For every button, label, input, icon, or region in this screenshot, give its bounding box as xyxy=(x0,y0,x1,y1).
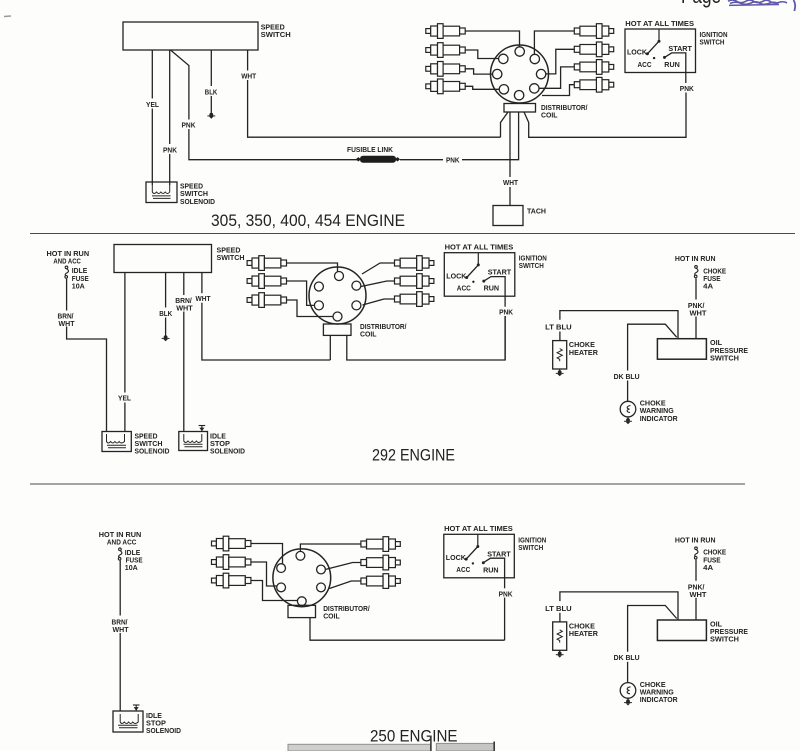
plug wire R1 s3 xyxy=(300,544,361,551)
spark plug 1 right xyxy=(574,24,613,39)
svg-text:SOLENOID: SOLENOID xyxy=(135,447,170,456)
svg-text:AND ACC: AND ACC xyxy=(107,538,137,547)
svg-text:SOLENOID: SOLENOID xyxy=(210,447,245,456)
plug wire R2 s2 xyxy=(361,281,395,287)
spark plug 2 left s2 xyxy=(247,274,286,289)
ground BLK s2 xyxy=(162,334,170,341)
spark plug 1 right s2 xyxy=(395,256,434,271)
svg-text:WHT: WHT xyxy=(503,178,518,187)
coil tach leg xyxy=(509,112,511,177)
svg-text:SWITCH: SWITCH xyxy=(261,30,291,39)
solenoid internals s2 xyxy=(107,434,127,448)
svg-text:Page: Page xyxy=(681,0,721,8)
V8 distributor/coil xyxy=(491,45,687,206)
label BRN/WHT left xyxy=(57,311,77,327)
svg-text:COIL: COIL xyxy=(323,611,340,620)
svg-text:SOLENOID: SOLENOID xyxy=(146,726,181,735)
6-cyl distributor/coil s3 xyxy=(273,549,505,640)
label BLK xyxy=(203,86,219,96)
idle fuse F1 xyxy=(65,266,69,278)
svg-text:YEL: YEL xyxy=(118,394,131,403)
speed switch solenoid box xyxy=(146,182,177,203)
terminal W xyxy=(493,69,502,78)
svg-text:WHT: WHT xyxy=(59,319,75,328)
label PNK mid xyxy=(180,120,197,130)
terminal SW xyxy=(499,85,508,94)
idle fuse F3 xyxy=(118,548,122,560)
svg-text:SWITCH: SWITCH xyxy=(217,253,245,262)
terminal LL xyxy=(277,583,286,592)
svg-text:YEL: YEL xyxy=(146,100,159,109)
label DK BLU xyxy=(612,371,642,381)
terminal LR xyxy=(352,301,361,310)
speed switch solenoid box s2 xyxy=(102,432,131,452)
terminal bottom xyxy=(297,597,306,606)
speed switch S2 box xyxy=(114,245,212,273)
speed switch S1 box xyxy=(123,22,258,50)
plug wire L3 s2 xyxy=(287,300,334,317)
ground BLK xyxy=(207,112,215,119)
spark plug 1 right s3 xyxy=(361,537,400,552)
blue pen scribble xyxy=(728,0,795,11)
plug wire R1 xyxy=(534,31,574,54)
coil leg to ignition PNK xyxy=(310,618,505,641)
label WHT tach xyxy=(501,178,519,187)
svg-text:4A: 4A xyxy=(703,282,714,291)
oil pressure switch box xyxy=(657,339,706,360)
distributor cap circle xyxy=(273,549,331,607)
terminal NE xyxy=(530,54,539,63)
wire BRN/WHT to idle stop solenoid xyxy=(183,273,185,432)
plug wire L3 s3 xyxy=(251,581,298,601)
wire PNK/WHT fuse to oil pressure switch xyxy=(695,278,697,299)
right choke assembly s2 xyxy=(544,254,749,424)
coil right leg to ignition PNK xyxy=(524,93,686,138)
coil right leg to ignition xyxy=(347,316,505,360)
svg-text:WHT: WHT xyxy=(241,71,256,80)
separator line 2 xyxy=(30,483,745,485)
svg-text:PNK: PNK xyxy=(163,145,177,154)
wire BLK speed switch to ground xyxy=(210,50,212,112)
coil left leg to WHT wire xyxy=(501,112,509,137)
6-cyl distributor/coil s2 xyxy=(309,267,505,360)
label BRN/WHT s3 xyxy=(111,617,131,633)
wire WHT speed switch to coil xyxy=(202,273,330,361)
svg-text:292 ENGINE: 292 ENGINE xyxy=(372,446,455,465)
plug wire R4 xyxy=(542,85,574,96)
svg-text:WHT: WHT xyxy=(690,309,707,318)
plug wire L1 xyxy=(465,31,519,47)
small gray smudge xyxy=(4,15,11,18)
terminal LL xyxy=(314,301,323,310)
bottom scan artifact bars xyxy=(288,736,494,751)
terminal NW xyxy=(499,54,508,63)
terminal top xyxy=(335,272,344,281)
wire DK BLU to indicator xyxy=(628,324,677,370)
svg-text:BLK: BLK xyxy=(159,309,172,318)
wire PNK ignition s3 to coil xyxy=(504,598,506,641)
wire BRN/WHT fuse to idle stop solenoid xyxy=(119,561,121,616)
terminal bottom xyxy=(333,312,342,321)
distributor cap circle xyxy=(309,267,366,324)
svg-text:HOT IN RUN: HOT IN RUN xyxy=(675,254,716,263)
choke fuse F2 xyxy=(694,266,698,278)
spark plug 3 right s3 xyxy=(361,574,400,589)
svg-text:305, 350, 400, 454 ENGINE: 305, 350, 400, 454 ENGINE xyxy=(211,211,405,230)
spark plug 3 right s2 xyxy=(395,292,434,307)
svg-text:250 ENGINE: 250 ENGINE xyxy=(370,727,458,746)
choke heater xyxy=(553,341,567,369)
spark plug 4 left xyxy=(426,79,465,94)
label LT BLU xyxy=(544,322,573,332)
spark plug 2 left xyxy=(426,43,465,58)
plug wire L2 s2 xyxy=(287,281,315,305)
plug wire R3 s2 xyxy=(363,299,395,305)
plug wire R3 xyxy=(540,67,575,88)
svg-text:SOLENOID: SOLENOID xyxy=(180,197,215,206)
svg-text:FUSIBLE LINK: FUSIBLE LINK xyxy=(347,145,393,154)
spark plug 4 right xyxy=(574,77,613,92)
terminal S xyxy=(514,91,523,100)
spark plug 3 left s3 xyxy=(212,573,251,588)
svg-text:DK BLU: DK BLU xyxy=(614,372,640,381)
plug wire L1 s2 xyxy=(287,263,338,272)
separator line 1 xyxy=(30,233,795,235)
plug wire L4 xyxy=(465,86,499,89)
label YEL xyxy=(145,99,161,109)
fusible link xyxy=(356,156,400,163)
plug wire R2 xyxy=(546,49,575,74)
spark plug 1 left xyxy=(426,24,465,39)
plug wire R2 s3 xyxy=(325,563,361,570)
wire PNK fusible link to coil xyxy=(400,159,443,161)
spark plug 2 right xyxy=(574,42,613,57)
coil tab s3 xyxy=(288,605,316,617)
spark plug 3 right xyxy=(574,60,613,75)
terminal top xyxy=(296,551,305,560)
terminal SE xyxy=(530,84,539,93)
svg-text:AND ACC: AND ACC xyxy=(53,257,81,266)
svg-text:LT BLU: LT BLU xyxy=(545,323,572,332)
spark plug 2 right s2 xyxy=(395,274,434,289)
ignition switch s2 xyxy=(444,243,547,317)
solenoid internals xyxy=(152,185,171,198)
spark plug 2 right s3 xyxy=(361,555,400,570)
wire BRN/WHT fuse to speed switch solenoid xyxy=(67,279,107,432)
solenoid internals xyxy=(184,434,203,447)
svg-text:INDICATOR: INDICATOR xyxy=(640,414,678,423)
label WHT s2 xyxy=(194,293,212,303)
terminal LR xyxy=(317,583,326,592)
wire YEL to speed switch solenoid xyxy=(124,273,126,432)
svg-text:WHT: WHT xyxy=(196,294,211,303)
terminal top xyxy=(515,47,524,56)
svg-text:PNK: PNK xyxy=(446,155,460,164)
svg-text:TACH: TACH xyxy=(527,206,546,215)
terminal UR xyxy=(317,565,326,574)
tach box xyxy=(493,206,523,226)
plug wire L2 xyxy=(465,50,498,59)
plug wire L3 xyxy=(465,69,492,74)
svg-text:10A: 10A xyxy=(72,282,85,291)
svg-text:WHT: WHT xyxy=(176,304,193,313)
plug wire L1 s3 xyxy=(251,544,283,564)
wire LT BLU feed xyxy=(560,311,678,339)
svg-text:COIL: COIL xyxy=(541,110,558,119)
wire BLK to ground xyxy=(165,273,167,335)
label BLK s2 xyxy=(158,308,175,318)
idle stop solenoid box s2 xyxy=(179,432,208,451)
distributor cap circle xyxy=(491,45,549,103)
coil tab s2 xyxy=(323,324,351,335)
label PNK lower xyxy=(162,144,179,154)
choke warning indicator lamp xyxy=(620,401,636,417)
svg-text:BLK: BLK xyxy=(205,87,218,96)
spark plug 2 left s3 xyxy=(212,555,251,570)
wire WHT speed switch to distributor coil xyxy=(248,50,501,137)
solenoid internals s3 xyxy=(118,714,138,728)
spark plug 3 left xyxy=(426,62,465,77)
handwritten Page header (cut off at top) xyxy=(4,0,795,17)
wire PNK speed switch to fusible link xyxy=(171,50,359,160)
wire YEL speed switch to solenoid xyxy=(151,50,153,185)
spark plug 3 left s2 xyxy=(247,293,286,308)
svg-text:10A: 10A xyxy=(125,563,138,572)
wire PNK speed switch to solenoid xyxy=(169,50,171,185)
ignition switch assembly template xyxy=(625,19,728,93)
plug wire R3 s3 xyxy=(330,581,361,589)
plug wire R1 s2 xyxy=(362,263,395,274)
ground choke heater xyxy=(556,369,564,376)
spark plug 1 left s2 xyxy=(247,256,286,271)
terminal UL xyxy=(314,282,323,291)
section content injected below xyxy=(123,22,686,226)
idle stop solenoid ground terminal s3 xyxy=(133,705,140,711)
label YEL s2 xyxy=(117,393,133,403)
coil tab xyxy=(504,104,536,113)
idle stop solenoid ground terminal xyxy=(199,426,206,432)
terminal E xyxy=(536,69,545,78)
svg-text:PNK: PNK xyxy=(182,120,196,129)
label WHT xyxy=(240,71,258,81)
svg-text:HEATER: HEATER xyxy=(569,348,598,357)
svg-text:WHT: WHT xyxy=(113,625,129,634)
terminal UL xyxy=(277,564,286,573)
spark plug 1 left s3 xyxy=(212,536,251,551)
svg-text:COIL: COIL xyxy=(360,330,377,339)
ground indicator xyxy=(624,417,632,424)
ignition switch s3 xyxy=(444,524,547,598)
svg-text:SWITCH: SWITCH xyxy=(710,353,739,362)
terminal UR xyxy=(352,281,361,290)
wire PNK ignition s2 resume xyxy=(504,316,506,360)
plug wire L2 s3 xyxy=(251,562,277,586)
label BRN/WHT mid xyxy=(174,295,194,312)
label PNK/WHT xyxy=(686,300,707,316)
right choke assembly s3 xyxy=(544,535,749,705)
idle stop solenoid box s3 xyxy=(113,711,143,732)
coil left leg xyxy=(329,335,331,360)
